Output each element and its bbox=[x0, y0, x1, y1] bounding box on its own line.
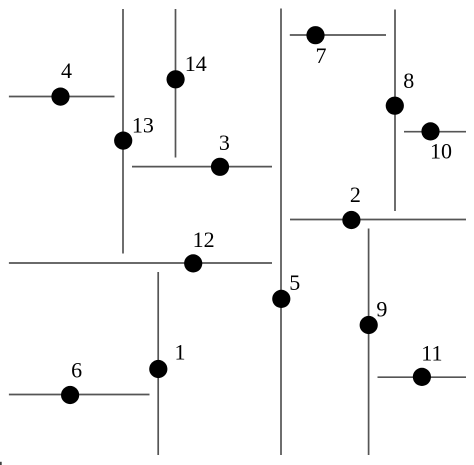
svg-text:6: 6 bbox=[71, 358, 82, 383]
svg-text:5: 5 bbox=[289, 270, 300, 295]
svg-text:3: 3 bbox=[219, 130, 230, 155]
point 10 bbox=[421, 122, 439, 140]
segment h10 (horizontal line through point 10) bbox=[404, 131, 466, 133]
point 3 bbox=[211, 158, 229, 176]
segment h2 (horizontal line through point 2) bbox=[290, 219, 466, 221]
point 2 bbox=[342, 211, 360, 229]
svg-text:2: 2 bbox=[350, 182, 361, 207]
point 1 bbox=[149, 360, 167, 378]
segment h11 (horizontal line through point 11) bbox=[378, 376, 467, 378]
segment v14 (vertical line through point 14) bbox=[175, 9, 177, 158]
segment h12 (horizontal line through point 12) bbox=[9, 262, 272, 264]
point 12 bbox=[184, 254, 202, 272]
point 8 bbox=[386, 97, 404, 115]
segment v8 (vertical line through point 8) bbox=[394, 10, 396, 212]
segment h6 (horizontal line through point 6) bbox=[9, 394, 150, 396]
segment h4 (horizontal line through point 4) bbox=[9, 96, 115, 98]
segment v5 (vertical line through point 5) bbox=[280, 9, 282, 456]
svg-text:4: 4 bbox=[61, 58, 72, 83]
svg-text:7: 7 bbox=[316, 43, 327, 68]
segment v9 (vertical line through point 9) bbox=[368, 229, 370, 456]
svg-text:8: 8 bbox=[403, 68, 414, 93]
point 4 bbox=[51, 88, 69, 106]
point 11 bbox=[413, 368, 431, 386]
svg-text:13: 13 bbox=[132, 112, 154, 137]
point 6 bbox=[61, 386, 79, 404]
svg-text:10: 10 bbox=[430, 138, 452, 163]
point 13 bbox=[114, 132, 132, 150]
stray mark bottom-left corner bbox=[0, 462, 2, 465]
point 9 bbox=[360, 316, 378, 334]
svg-text:14: 14 bbox=[185, 51, 207, 76]
point 7 bbox=[306, 26, 324, 44]
segment h3 (horizontal line through point 3) bbox=[132, 166, 272, 168]
svg-text:12: 12 bbox=[193, 227, 215, 252]
segment v1 (vertical line through point 1) bbox=[157, 272, 159, 455]
segment h7 (horizontal line through point 7) bbox=[290, 34, 386, 36]
svg-text:1: 1 bbox=[175, 339, 186, 364]
svg-text:9: 9 bbox=[376, 297, 387, 322]
point 5 bbox=[272, 290, 290, 308]
point 14 bbox=[167, 70, 185, 88]
segment v13 (vertical line through point 13) bbox=[122, 9, 124, 254]
svg-text:11: 11 bbox=[421, 341, 442, 366]
